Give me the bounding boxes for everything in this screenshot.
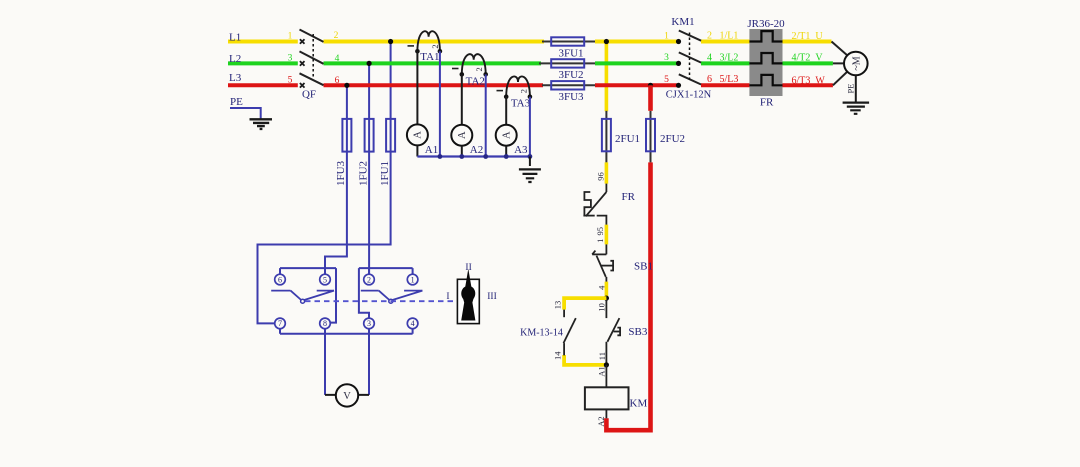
svg-text:7: 7 <box>278 319 282 328</box>
svg-text:A3: A3 <box>514 144 528 156</box>
contact circles selector <box>275 274 418 329</box>
svg-text:2FU2: 2FU2 <box>660 133 685 145</box>
svg-text:A2: A2 <box>596 416 606 426</box>
svg-text:III: III <box>487 292 497 302</box>
svg-text:6/T3 W: 6/T3 W <box>792 75 826 86</box>
fuse 1FU2 <box>365 119 374 152</box>
wire TA2 right lead <box>485 74 487 156</box>
wire control tap from L1 down to 2FU1 <box>605 42 609 112</box>
svg-text:1: 1 <box>664 31 669 41</box>
svg-text:L1: L1 <box>229 32 241 44</box>
svg-text:5: 5 <box>664 75 669 85</box>
svg-text:11: 11 <box>597 352 607 360</box>
svg-text:95: 95 <box>595 227 605 236</box>
wire 1FU2 tap from L2 to selector contact 2 <box>368 63 370 274</box>
coil KM <box>605 365 607 387</box>
svg-text:3FU3: 3FU3 <box>558 91 584 103</box>
svg-text:QF: QF <box>302 89 316 101</box>
svg-text:5: 5 <box>288 75 293 85</box>
svg-text:II: II <box>465 263 471 273</box>
fuse 3FU1 <box>551 37 584 45</box>
svg-text:2: 2 <box>334 31 339 41</box>
fuse 3FU2 <box>551 59 584 67</box>
svg-text:KM-13-14: KM-13-14 <box>520 328 563 339</box>
svg-text:6: 6 <box>278 275 282 284</box>
svg-text:L3: L3 <box>229 72 242 84</box>
wire drop contact 3 to voltmeter <box>368 329 370 395</box>
svg-text:1: 1 <box>595 239 605 243</box>
svg-text:1: 1 <box>411 275 415 284</box>
svg-text:2: 2 <box>518 89 528 93</box>
wire dark stubs through 3FU fuses <box>539 42 595 86</box>
fuse 1FU3 <box>342 119 351 152</box>
button SB1 stop normally-closed <box>592 244 613 281</box>
wire yellow control segments <box>605 162 609 298</box>
transformer TA2 <box>462 54 486 74</box>
fuse 3FU3 <box>551 81 584 89</box>
svg-text:L2: L2 <box>229 53 241 65</box>
voltmeter V <box>325 394 369 396</box>
svg-text:4: 4 <box>411 319 415 328</box>
fuse 1FU1 <box>386 119 395 152</box>
wire A2 bottom lead <box>461 146 463 157</box>
fuse 2FU2 <box>650 111 652 163</box>
node L3 red line <box>228 83 833 87</box>
wire motor leads <box>832 42 848 86</box>
svg-text:JR36-20: JR36-20 <box>747 18 785 30</box>
svg-text:14: 14 <box>552 351 562 360</box>
node junction dots on mains <box>344 39 681 88</box>
svg-text:6: 6 <box>335 76 340 86</box>
svg-text:3: 3 <box>664 53 669 63</box>
svg-text:3FU1: 3FU1 <box>558 47 583 59</box>
wire A1 bottom lead <box>416 145 418 156</box>
transformer TA3 <box>506 76 530 96</box>
svg-text:SB3: SB3 <box>628 326 647 338</box>
svg-text:TA3: TA3 <box>511 97 531 109</box>
svg-text:1FU3: 1FU3 <box>335 160 347 186</box>
svg-text:FR: FR <box>622 191 636 203</box>
wire contact stubs top <box>280 268 413 274</box>
ammeter A1 <box>407 124 428 145</box>
svg-text:FR: FR <box>760 97 774 109</box>
svg-text:4: 4 <box>597 285 607 290</box>
svg-text:5: 5 <box>323 275 327 284</box>
switch blades right section <box>361 291 423 300</box>
transformer TA1 <box>417 31 440 51</box>
node junction control bottom <box>604 362 609 367</box>
svg-text:8: 8 <box>323 319 327 328</box>
selector switch top rails <box>280 267 413 269</box>
motor M <box>844 52 868 76</box>
wire ammeter common bus <box>417 155 530 157</box>
wire TA3 right lead <box>529 97 531 157</box>
svg-text:TA2: TA2 <box>466 76 485 88</box>
wire bottom rail <box>280 329 413 334</box>
wire TA3 left lead <box>505 97 507 125</box>
svg-text:4 3/L2: 4 3/L2 <box>707 52 738 63</box>
wire 1FU3 tap from L3 to selector contact 5 <box>325 85 347 274</box>
ground motor PE <box>855 75 857 102</box>
wire A3 bottom lead <box>505 146 507 157</box>
svg-text:I: I <box>446 292 449 302</box>
svg-text:KM1: KM1 <box>671 16 694 28</box>
svg-text:4: 4 <box>335 54 340 64</box>
svg-text:KM: KM <box>630 397 648 409</box>
svg-text:13: 13 <box>552 301 562 310</box>
svg-text:2: 2 <box>474 67 484 71</box>
wire mechanical dashed link <box>305 300 457 302</box>
wire rail drop to contact 3 <box>359 268 369 318</box>
wire drop contact 8 to voltmeter <box>324 329 326 395</box>
svg-text:V: V <box>343 391 351 402</box>
node junction control top <box>604 296 609 301</box>
svg-text:SB1: SB1 <box>634 260 653 272</box>
wire 1FU1 tap from L1 to selector contact 7 <box>258 42 391 324</box>
svg-text:PE: PE <box>230 96 243 108</box>
wire TA1 left lead <box>416 51 418 124</box>
svg-text:1: 1 <box>288 32 293 42</box>
svg-text:3FU2: 3FU2 <box>558 69 583 81</box>
node L2 green line <box>228 61 833 65</box>
ammeter A2 <box>451 125 472 146</box>
svg-text:4/T2 V: 4/T2 V <box>792 53 824 64</box>
svg-text:1FU2: 1FU2 <box>357 161 369 186</box>
svg-text:A1: A1 <box>596 366 606 376</box>
node L1 yellow line <box>228 40 832 44</box>
contactor KM1 main contacts <box>679 31 701 85</box>
svg-text:PE: PE <box>846 84 856 94</box>
svg-text:6 5/L3: 6 5/L3 <box>707 74 738 85</box>
fuse 2FU1 <box>605 111 607 163</box>
wire TA2 left lead <box>461 74 463 124</box>
svg-text:TA1: TA1 <box>420 51 439 63</box>
node bus junctions <box>438 154 533 159</box>
svg-text:CJX1-12N: CJX1-12N <box>666 90 712 101</box>
svg-text:A: A <box>502 131 513 139</box>
svg-text:2FU1: 2FU1 <box>615 133 640 145</box>
svg-text:10: 10 <box>597 303 607 312</box>
ground measuring circuit <box>529 157 531 167</box>
switch blades left section <box>271 291 334 300</box>
wire TA1 right lead <box>439 51 441 156</box>
svg-text:2/T1 U: 2/T1 U <box>792 31 824 42</box>
relay FR heater block JR36-20 <box>749 29 782 96</box>
svg-text:A2: A2 <box>470 144 483 156</box>
contact FR normally-closed <box>583 184 606 225</box>
svg-text:96: 96 <box>596 172 606 181</box>
svg-text:2 1/L1: 2 1/L1 <box>707 31 738 42</box>
ammeter A3 <box>496 125 517 146</box>
svg-text:~M: ~M <box>851 56 862 70</box>
svg-text:A: A <box>413 131 424 139</box>
contact KM-13-14 holding branch <box>564 298 606 310</box>
svg-text:2: 2 <box>367 275 371 284</box>
svg-text:A1: A1 <box>425 144 438 156</box>
wire red control branch from L3 <box>648 85 653 111</box>
svg-text:3: 3 <box>288 54 293 64</box>
svg-text:A: A <box>457 131 468 139</box>
svg-text:3: 3 <box>367 319 371 328</box>
svg-text:1FU1: 1FU1 <box>379 161 391 186</box>
wire rail drop to contact 8 <box>330 268 336 323</box>
switch handle <box>457 279 479 323</box>
button SB3 start normally-open <box>605 298 607 318</box>
breaker QF <box>300 39 305 87</box>
svg-text:2: 2 <box>430 44 440 48</box>
